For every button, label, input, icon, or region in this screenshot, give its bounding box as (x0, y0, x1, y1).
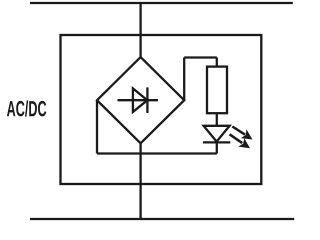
wire center vertical from top bus to bridge AC input (139, 3, 141, 59)
diode D1 cathode bar (146, 87, 148, 113)
resistor R1 body (207, 67, 227, 114)
wire bottom supply bus (30, 218, 294, 220)
LED light emission arrow 2 (227, 130, 253, 153)
wire from bridge DC- (left vertex) down (96, 100, 98, 153)
diode D1 lead wire inside bridge (118, 99, 159, 101)
outer module enclosure rectangle (61, 35, 262, 184)
wire resistor bottom to LED anode (216, 113, 218, 126)
label AC/DC (7, 100, 46, 116)
LED light emission arrow 1 (229, 122, 255, 144)
LED V1 cathode bar (203, 141, 230, 143)
wire down into resistor top (216, 58, 218, 67)
bridge rectifier diamond outline (97, 57, 184, 143)
diode D1 anode triangle (133, 88, 148, 112)
wire center vertical from bridge AC output to bottom bus (139, 142, 141, 219)
LED V1 anode triangle (204, 126, 230, 142)
wire top supply bus (30, 2, 293, 4)
wire bottom of indicator loop (97, 152, 217, 154)
wire top of indicator branch (184, 56, 217, 58)
wire from bridge DC+ (right vertex) up (183, 58, 185, 101)
wire LED cathode down (216, 142, 218, 153)
